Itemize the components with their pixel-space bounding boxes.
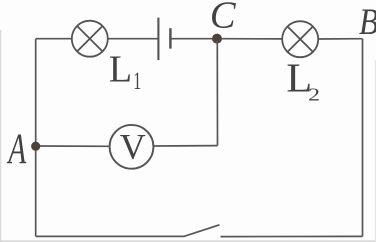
lamp L2 bbox=[282, 21, 318, 57]
wire: node C to lamp L2 bbox=[222, 38, 282, 40]
node C junction dot bbox=[212, 34, 222, 44]
scan edge artifacts (decorative) bbox=[0, 30, 2, 242]
lamp L1 bbox=[72, 21, 108, 57]
wire: battery to node C bbox=[171, 38, 217, 40]
wire: top segment, top-left corner to lamp L1 bbox=[36, 38, 72, 40]
wire: lamp L1 to battery positive plate bbox=[108, 38, 158, 40]
svg-text:L: L bbox=[109, 48, 132, 90]
wire: bottom right segment from switch to bottom-right corner bbox=[221, 235, 363, 237]
wire: voltmeter to riser corner bbox=[154, 145, 218, 147]
wire: node A to voltmeter bbox=[40, 145, 110, 147]
wire: right side, B corner down to bottom-right corner bbox=[362, 39, 364, 237]
voltmeter U1 bbox=[110, 125, 154, 169]
battery cell: short (negative) plate bbox=[169, 28, 172, 48]
svg-text:1: 1 bbox=[133, 68, 141, 95]
svg-text:V: V bbox=[120, 127, 146, 167]
svg-text:A: A bbox=[6, 126, 26, 173]
wire: bottom left segment to switch bbox=[36, 235, 184, 237]
svg-text:C: C bbox=[210, 0, 237, 37]
svg-text:B: B bbox=[359, 2, 376, 43]
wire: lamp L2 to top-right corner at B bbox=[318, 38, 362, 40]
svg-text:2: 2 bbox=[308, 85, 320, 105]
battery cell: long (positive) plate bbox=[157, 18, 159, 61]
wire: riser from middle wire up to node C bbox=[216, 41, 218, 146]
switch S1 (open) lever bbox=[184, 225, 220, 237]
node A junction dot bbox=[31, 142, 40, 151]
wire: left side (top-left corner down to bottom-left corner, through node A) bbox=[35, 39, 37, 237]
